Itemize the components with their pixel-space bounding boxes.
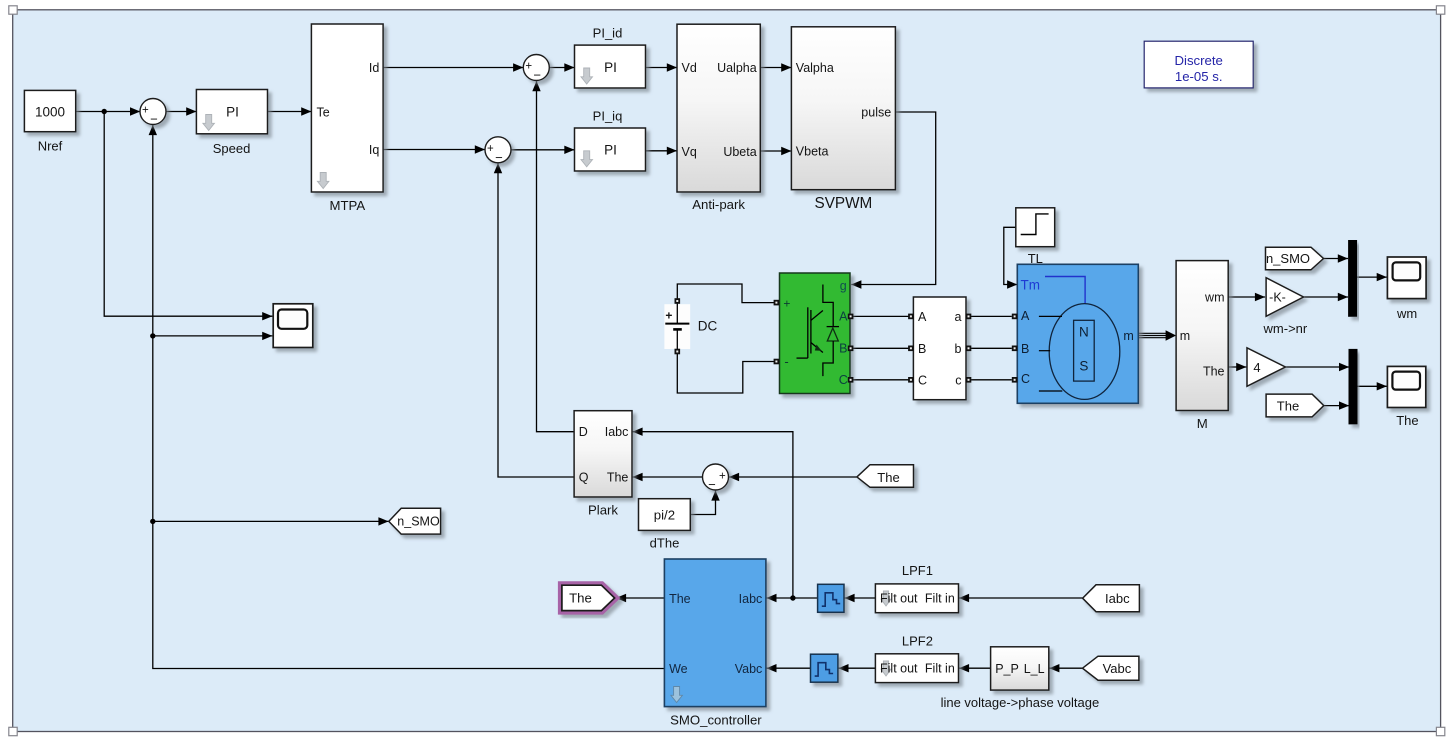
svg-text:line voltage->phase voltage: line voltage->phase voltage — [941, 695, 1100, 710]
svg-text:Filt out: Filt out — [880, 661, 918, 675]
From tag The (middle) — [857, 465, 914, 488]
svg-text:Speed: Speed — [213, 141, 251, 156]
wire From The to Sum3 — [729, 476, 857, 478]
svg-text:+: + — [783, 296, 790, 310]
scope speed (left) — [273, 304, 313, 348]
svg-text:m: m — [1123, 329, 1133, 343]
wire P_P L_L to LPF2 — [959, 667, 991, 669]
svg-text:g: g — [840, 279, 847, 293]
wire filter2 to SMO Vabc — [766, 667, 810, 669]
wire pi/2 to Sum3 — [690, 490, 715, 514]
svg-text:Ubeta: Ubeta — [723, 145, 756, 159]
junction We to Scope — [150, 333, 155, 338]
frame corner handles — [9, 6, 17, 14]
svg-text:SMO_controller: SMO_controller — [670, 712, 762, 727]
From tag n_SMO (right) — [1266, 247, 1324, 270]
svg-text:C: C — [839, 373, 848, 387]
wire From n_SMO to Mux1 — [1324, 258, 1349, 260]
svg-text:L_L: L_L — [1024, 662, 1045, 676]
wire bridge C to measure C — [853, 379, 911, 381]
svg-text:Te: Te — [317, 105, 330, 119]
svg-text:4: 4 — [1253, 360, 1260, 375]
svg-text:Vq: Vq — [682, 145, 697, 159]
svg-text:-: - — [784, 354, 788, 369]
svg-text:-K-: -K- — [1269, 290, 1286, 304]
measurement demux M — [1176, 261, 1228, 411]
wire Plark D to Sum1 feedback — [537, 81, 575, 432]
universal bridge (green) — [780, 273, 851, 394]
MTPA subsystem — [311, 24, 383, 192]
svg-text:Valpha: Valpha — [796, 61, 834, 75]
wire DC plus to bridge plus — [677, 284, 774, 303]
svg-text:The: The — [1277, 398, 1299, 413]
wire We branch to Goto n_SMO — [153, 520, 389, 522]
svg-text:Id: Id — [369, 61, 379, 75]
svg-text:Iq: Iq — [369, 143, 379, 157]
svg-text:The: The — [877, 470, 899, 485]
svg-text:We: We — [669, 662, 688, 676]
wire From Vabc to P_P L_L — [1049, 667, 1082, 669]
svg-text:Iabc: Iabc — [1105, 591, 1130, 606]
junction Nref branch — [102, 109, 107, 114]
wire SMO The to Goto The — [616, 597, 665, 599]
svg-text:Nref: Nref — [38, 139, 63, 154]
wire SVPWM pulse to bridge g — [851, 112, 936, 285]
wire filter1 to SMO Iabc — [766, 597, 817, 599]
svg-text:pi/2: pi/2 — [654, 507, 675, 522]
svg-text:The: The — [1396, 413, 1418, 428]
svg-text:Anti-park: Anti-park — [692, 197, 745, 212]
wire Sum2 to PI_iq — [511, 149, 575, 151]
svg-text:+: + — [665, 309, 672, 323]
sum dThe — [703, 464, 729, 490]
wire From The to Mux2 — [1324, 405, 1349, 407]
discrete filter icon 2 — [811, 654, 838, 682]
svg-text:P_P: P_P — [995, 662, 1019, 676]
svg-text:a: a — [955, 310, 962, 324]
wire Iabc tap to Plark Iabc — [632, 432, 793, 598]
svg-text:n_SMO: n_SMO — [1266, 251, 1310, 266]
wire Ubeta to Vbeta — [760, 150, 791, 152]
wire SMO We feedback to Sum — [153, 125, 665, 669]
svg-text:Ualpha: Ualpha — [717, 61, 757, 75]
wire Plark Q to Sum2 feedback — [498, 163, 574, 477]
svg-text:The: The — [607, 470, 629, 484]
svg-text:−: − — [533, 68, 541, 83]
svg-text:Filt in: Filt in — [925, 592, 955, 606]
svg-text:−: − — [495, 150, 503, 165]
svg-text:Plark: Plark — [588, 502, 618, 517]
wire MTPA Id to Sum1 — [383, 67, 523, 69]
svg-text:The: The — [669, 592, 691, 606]
constant pi/2 — [639, 499, 691, 531]
Goto tag n_SMO (left) — [389, 508, 441, 534]
svg-text:A: A — [839, 309, 848, 323]
wire DC minus to bridge minus — [677, 354, 774, 394]
three-phase measure block — [913, 297, 966, 400]
wire LPF2 to filter2 — [838, 667, 875, 669]
svg-text:A: A — [1021, 309, 1030, 323]
svg-text:PI_id: PI_id — [593, 26, 623, 41]
Plark transform subsystem — [574, 411, 632, 497]
svg-text:SVPWM: SVPWM — [815, 195, 873, 212]
svg-text:n_SMO: n_SMO — [397, 515, 440, 529]
svg-text:B: B — [1021, 342, 1029, 356]
wire measure a to motor A — [969, 315, 1012, 317]
discrete filter icon 1 — [818, 584, 844, 612]
svg-text:Filt in: Filt in — [925, 661, 955, 675]
wire gain wm-nr to Mux1 — [1304, 296, 1349, 298]
Anti-park subsystem — [677, 24, 760, 192]
svg-text:B: B — [839, 341, 847, 355]
From tag The (right) — [1266, 394, 1324, 417]
wire LPF1 to filter1 — [844, 597, 875, 599]
svg-text:M: M — [1197, 416, 1208, 431]
svg-text:B: B — [918, 342, 926, 356]
svg-text:+: + — [525, 61, 532, 73]
wire gain 4 to Mux2 — [1285, 366, 1349, 368]
svg-text:wm->nr: wm->nr — [1263, 321, 1308, 336]
SMO_controller subsystem (blue) — [664, 559, 766, 707]
svg-text:Iabc: Iabc — [739, 592, 763, 606]
wire From Iabc to LPF1 — [959, 597, 1083, 599]
wire Speed to MTPA Te — [268, 111, 312, 113]
wire bridge A to measure A — [853, 315, 911, 317]
svg-text:dThe: dThe — [650, 536, 680, 551]
wire Sum to Speed PI — [166, 111, 196, 113]
svg-text:D: D — [579, 425, 588, 439]
svg-text:Q: Q — [579, 470, 589, 484]
svg-text:Vabc: Vabc — [1103, 661, 1132, 676]
mux2 — [1349, 349, 1357, 424]
junction Iabc tap — [790, 595, 795, 600]
From tag Iabc — [1083, 585, 1140, 612]
svg-text:−: − — [150, 112, 158, 127]
wire MTPA Iq to Sum2 — [383, 149, 485, 151]
constant Nref 1000 — [24, 90, 75, 131]
svg-text:A: A — [918, 310, 927, 324]
PMSM motor block (blue) — [1017, 264, 1138, 403]
sum iq — [485, 137, 511, 163]
wire TL step to motor Tm — [1004, 227, 1018, 284]
svg-text:Vbeta: Vbeta — [796, 144, 829, 158]
wire Sum1 to PI_id — [549, 67, 574, 69]
wire measure b to motor B — [969, 347, 1012, 349]
bus motor m to M — [1138, 332, 1167, 334]
wire PI_id to Anti-park Vd — [646, 67, 678, 69]
svg-text:wm: wm — [1204, 290, 1224, 304]
svg-text:+: + — [487, 143, 494, 155]
From tag Vabc — [1083, 656, 1139, 680]
SVPWM subsystem — [791, 27, 895, 190]
svg-text:1e-05 s.: 1e-05 s. — [1175, 69, 1223, 84]
svg-text:Tm: Tm — [1021, 277, 1041, 292]
wire M The to gain 4 — [1228, 366, 1246, 368]
svg-text:m: m — [1180, 329, 1190, 343]
svg-text:PI_iq: PI_iq — [593, 108, 623, 123]
scope The — [1387, 366, 1425, 407]
svg-text:Vabc: Vabc — [735, 662, 763, 676]
svg-text:c: c — [955, 373, 961, 387]
svg-text:Filt out: Filt out — [880, 592, 918, 606]
Discrete solver annotation — [1144, 41, 1253, 88]
svg-text:PI: PI — [604, 143, 617, 158]
svg-text:C: C — [918, 373, 927, 387]
wire Sum3 to Plark The — [632, 476, 702, 478]
svg-text:pulse: pulse — [861, 105, 891, 119]
svg-text:1000: 1000 — [35, 104, 65, 119]
svg-text:Discrete: Discrete — [1175, 53, 1223, 68]
svg-text:+: + — [719, 470, 726, 482]
line voltage to phase voltage subsystem — [991, 647, 1049, 690]
svg-text:MTPA: MTPA — [329, 198, 365, 213]
svg-text:Vd: Vd — [682, 61, 697, 75]
svg-text:The: The — [569, 591, 592, 606]
svg-text:PI: PI — [226, 105, 239, 120]
svg-text:DC: DC — [698, 319, 718, 334]
wire Nref branch to Scope input1 — [104, 112, 272, 317]
step TL — [1016, 208, 1055, 247]
svg-text:−: − — [708, 477, 716, 492]
wire Mux1 to Scope wm — [1356, 276, 1387, 278]
svg-text:wm: wm — [1396, 306, 1417, 321]
svg-text:Iabc: Iabc — [605, 425, 629, 439]
DC voltage source — [664, 304, 690, 349]
PI Speed block — [196, 90, 267, 134]
wire Mux2 to Scope The — [1357, 385, 1387, 387]
Goto tag The (purple highlight) — [562, 585, 615, 610]
wire bridge B to measure B — [853, 347, 911, 349]
wire Ualpha to Valpha — [760, 67, 791, 69]
junction We to n_SMO — [150, 519, 155, 524]
scope wm — [1387, 257, 1426, 299]
wire We branch to Scope input2 — [153, 335, 273, 337]
wire measure c to motor C — [969, 379, 1012, 381]
wire Nref to Sum — [76, 111, 141, 113]
sum id — [523, 55, 549, 81]
svg-text:b: b — [955, 342, 962, 356]
wire M wm to gain wm-nr — [1228, 296, 1265, 298]
wire PI_iq to Anti-park Vq — [646, 150, 678, 152]
svg-text:+: + — [142, 105, 149, 117]
svg-text:LPF1: LPF1 — [902, 563, 933, 578]
svg-text:LPF2: LPF2 — [902, 634, 933, 649]
svg-text:PI: PI — [604, 60, 617, 75]
svg-text:C: C — [1021, 372, 1030, 386]
svg-text:S: S — [1079, 359, 1088, 374]
gain 4 — [1247, 348, 1285, 387]
mux1 — [1349, 241, 1357, 317]
gain wm to nr — [1266, 278, 1303, 317]
sum speed — [140, 99, 166, 125]
svg-text:The: The — [1203, 365, 1225, 379]
svg-text:N: N — [1079, 324, 1089, 339]
